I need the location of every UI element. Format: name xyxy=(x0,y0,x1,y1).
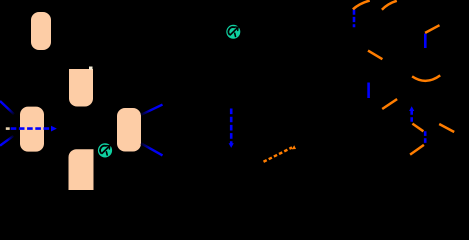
wire orange seg O3 xyxy=(368,51,382,60)
arrowhead right xyxy=(51,126,57,132)
node B notch xyxy=(89,67,93,70)
arrowhead down mid xyxy=(229,143,234,148)
node C xyxy=(20,107,44,152)
wire blue dashed vertical mid xyxy=(230,109,233,144)
wire blue lower-left xyxy=(0,136,14,146)
wire orange curve top1 xyxy=(353,1,370,10)
wire blue dashed vertical right-upper xyxy=(410,110,413,123)
wire orange dashed diagonal xyxy=(264,147,293,161)
wire tan dash xyxy=(6,127,10,130)
arrowhead up right xyxy=(409,106,414,111)
node D xyxy=(69,149,94,190)
wire orange seg O6 xyxy=(410,145,424,155)
wire blue dashed horizontal xyxy=(11,127,52,130)
meter M2 xyxy=(226,25,240,39)
wire orange curve mid xyxy=(412,75,440,80)
wire blue solid vertical left xyxy=(367,83,370,99)
wire orange curve top2 xyxy=(382,1,397,10)
node B xyxy=(69,69,93,107)
arrowhead orange xyxy=(292,145,296,149)
wire orange seg O4 xyxy=(425,25,439,33)
wire orange seg O7 xyxy=(439,124,454,132)
node E xyxy=(117,108,141,152)
wire blue solid vertical right xyxy=(424,34,427,49)
wire orange seg O8 xyxy=(382,99,397,109)
meter M1 xyxy=(98,143,112,157)
wire blue E-lower xyxy=(141,143,163,155)
wire blue E-upper xyxy=(141,105,163,115)
wire blue upper-left xyxy=(0,101,14,114)
wire orange seg O5 xyxy=(412,124,423,132)
wire blue dashed vertical right-lower xyxy=(424,131,427,145)
node A xyxy=(31,12,51,50)
wire blue dashed vertical top-right xyxy=(353,10,356,28)
